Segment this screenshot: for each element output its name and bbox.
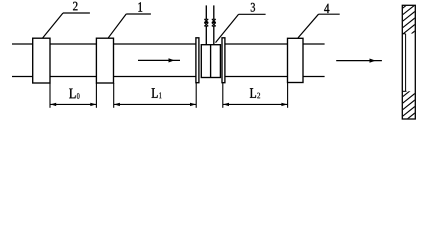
wire: pipe top line segment (block 4 to outlet) <box>303 43 325 45</box>
dimension extension line at block 1 left edge <box>95 83 97 108</box>
orifice plate front view: bore inner wall line <box>405 34 407 92</box>
dimension line L0 with arrowheads <box>50 103 97 106</box>
flow arrow at pipe outlet <box>336 59 382 63</box>
label 4 <box>324 4 329 13</box>
orifice plate front view: outer ring rectangle <box>402 5 415 119</box>
wire: pipe top line segment (inlet to block 2) <box>12 43 33 45</box>
orifice left pipe flange <box>196 38 199 83</box>
dimension extension line at block 2 right edge <box>49 83 51 108</box>
orifice plate line <box>210 45 212 78</box>
wire: pipe bottom line segment (block 4 to outlet) <box>303 76 325 78</box>
label 3 <box>251 3 255 12</box>
dimension extension line at block 4 left edge <box>287 83 289 108</box>
component 1: upstream pipe section block <box>96 38 113 83</box>
valve pair on impulse tube 1 <box>204 19 208 26</box>
wire: pipe bottom line segment (orifice flange to block 4) <box>225 76 288 78</box>
leader line for label 2 <box>42 13 90 38</box>
component 3: orifice flange body <box>201 45 220 78</box>
leader line for label 3 <box>216 14 266 42</box>
component 4: downstream pipe section block <box>288 38 304 82</box>
wire: pipe top line segment (orifice flange to block 4) <box>225 43 288 45</box>
impulse tube 2 <box>213 5 215 19</box>
leader line for label 1 <box>108 14 151 38</box>
wire: pipe top line segment (block 2 to block 1) <box>50 43 96 45</box>
dimension label L2 <box>250 88 256 97</box>
orifice plate front view: bore top edge <box>402 33 405 35</box>
dimension line L1 with arrowheads <box>114 103 197 106</box>
leader line for label 4 <box>298 14 340 38</box>
impulse tube 1 <box>205 5 207 19</box>
label 2 <box>73 2 77 10</box>
dimension label L1 <box>152 88 158 97</box>
wire: pipe bottom line segment (block 2 to block 1) <box>50 76 96 78</box>
dimension extension line at block 1 right edge <box>113 83 115 108</box>
dimension extension line at orifice right flange <box>222 83 224 108</box>
wire: pipe bottom line segment (inlet to block 2) <box>12 76 33 78</box>
label 1 <box>138 2 142 11</box>
component 2: upstream straightener block <box>33 38 50 83</box>
orifice plate front view: bore bottom edge <box>402 90 406 92</box>
dimension label L0 <box>69 89 75 99</box>
flow arrow inside pipe <box>138 58 180 62</box>
dimension line L2 with arrowheads <box>223 103 288 106</box>
hatching of ring lower section <box>401 85 417 130</box>
dimension extension line at orifice left flange <box>195 83 197 108</box>
valve pair on impulse tube 2 <box>212 19 216 26</box>
orifice right pipe flange <box>222 38 225 83</box>
hatching of ring upper section <box>401 0 417 42</box>
wire: pipe bottom line segment (block 1 to orifice flange) <box>114 76 197 78</box>
wire: pipe top line segment (block 1 to orifice flange) <box>114 43 197 45</box>
